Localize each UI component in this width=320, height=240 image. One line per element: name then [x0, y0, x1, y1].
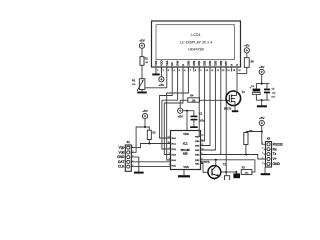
svg-text:DB2: DB2 — [197, 60, 201, 66]
svg-text:5: 5 — [132, 165, 133, 167]
svg-text:RS232: RS232 — [273, 142, 283, 146]
svg-text:3: 3 — [169, 159, 170, 161]
svg-text:LCD1: LCD1 — [191, 33, 200, 37]
svg-text:GND: GND — [273, 162, 281, 166]
svg-text:2: 2 — [262, 148, 263, 150]
svg-text:VSS: VSS — [154, 60, 158, 65]
svg-text:DB6: DB6 — [219, 60, 223, 66]
svg-text:16V: 16V — [271, 97, 275, 99]
svg-text:T1: T1 — [242, 90, 246, 94]
svg-text:DB0: DB0 — [186, 60, 190, 66]
svg-text:628: 628 — [183, 152, 188, 156]
svg-text:HD44780: HD44780 — [188, 47, 204, 51]
svg-text:LC-DISPLAY 20 x 4: LC-DISPLAY 20 x 4 — [180, 41, 212, 45]
svg-text:3: 3 — [132, 156, 133, 158]
svg-text:+5V: +5V — [177, 114, 182, 118]
svg-text:Vdd: Vdd — [119, 150, 125, 154]
svg-text:VDD: VDD — [183, 132, 189, 136]
svg-text:CLK: CLK — [118, 165, 125, 169]
svg-text:1: 1 — [262, 143, 263, 145]
svg-text:V+: V+ — [273, 157, 277, 161]
svg-text:DB4: DB4 — [208, 60, 212, 66]
svg-text:1: 1 — [169, 148, 170, 150]
svg-text:+5V: +5V — [259, 65, 264, 69]
svg-text:1: 1 — [132, 146, 133, 148]
svg-text:BC557B: BC557B — [201, 162, 210, 164]
svg-text:Rx: Rx — [273, 147, 277, 151]
svg-text:Vpp: Vpp — [119, 146, 125, 150]
svg-text:VEE: VEE — [165, 60, 169, 65]
svg-text:R/W: R/W — [176, 60, 180, 66]
svg-text:2: 2 — [132, 151, 133, 153]
svg-text:+5V: +5V — [142, 109, 147, 113]
svg-text:P1: P1 — [132, 79, 136, 83]
svg-text:DB7: DB7 — [224, 60, 228, 66]
svg-text:VSS: VSS — [183, 165, 188, 169]
svg-text:4: 4 — [262, 157, 263, 159]
svg-text:4: 4 — [132, 160, 133, 162]
svg-text:+5V: +5V — [259, 116, 264, 120]
svg-text:PIC16F: PIC16F — [181, 148, 190, 152]
svg-text:2: 2 — [169, 153, 170, 155]
svg-text:4: 4 — [169, 164, 170, 166]
svg-text:VDD: VDD — [159, 60, 163, 66]
svg-text:BS170: BS170 — [224, 107, 232, 110]
svg-text:+5V: +5V — [159, 83, 164, 87]
svg-text:13: 13 — [201, 135, 203, 137]
svg-text:DB3: DB3 — [203, 60, 207, 66]
svg-text:IC1: IC1 — [183, 141, 188, 145]
svg-text:RS: RS — [170, 62, 174, 66]
svg-text:5: 5 — [262, 162, 263, 164]
svg-text:Tx: Tx — [273, 152, 277, 156]
svg-text:DB5: DB5 — [213, 60, 217, 66]
svg-text:E: E — [181, 64, 185, 66]
svg-text:+5V: +5V — [139, 39, 144, 43]
svg-text:DAT: DAT — [118, 160, 124, 164]
svg-text:GND: GND — [117, 155, 125, 159]
svg-text:+5V: +5V — [244, 43, 249, 47]
svg-text:A: A — [230, 64, 234, 66]
svg-text:K: K — [235, 64, 239, 66]
svg-text:DB1: DB1 — [192, 60, 196, 66]
svg-text:17: 17 — [168, 137, 170, 139]
svg-text:3: 3 — [262, 153, 263, 155]
